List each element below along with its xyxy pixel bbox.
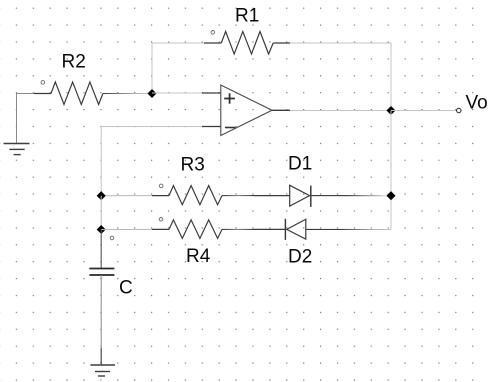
svg-text:R3: R3 [181, 154, 205, 175]
terminal Vo [457, 108, 461, 112]
diode D1 [254, 185, 311, 207]
svg-text:C: C [119, 278, 133, 299]
label R4 [186, 246, 211, 267]
wire: right bus node C down to D2 row [390, 196, 392, 230]
wire: node E down to capacitor C [100, 230, 102, 269]
ground GND2 [90, 365, 115, 376]
junction node A [147, 89, 156, 98]
wire: left bus node D to R3 lead [101, 195, 152, 197]
svg-text:D2: D2 [288, 247, 312, 268]
label R2 [62, 52, 86, 73]
wire: op-amp output to node B [290, 110, 391, 112]
op-amp U1 [202, 85, 290, 136]
junction node B (output) [386, 106, 395, 115]
label D1 [288, 154, 312, 175]
resistor R2 [34, 81, 152, 105]
wire: right bus node B to node C [390, 111, 392, 196]
wire: node A up to R1 left lead [152, 43, 204, 94]
resistor R4 [152, 218, 254, 239]
wire: capacitor to ground GND2 [100, 275, 102, 365]
junction node C [386, 191, 395, 200]
svg-text:R2: R2 [62, 52, 86, 73]
svg-text:D1: D1 [288, 154, 312, 175]
label R3 [181, 154, 205, 175]
ground GND1 [4, 144, 30, 155]
svg-text:Vo: Vo [466, 93, 488, 114]
svg-text:R1: R1 [235, 6, 259, 27]
label C [119, 278, 133, 299]
wire: left bus node D to node E [100, 196, 102, 230]
wire: node B to output terminal [391, 110, 457, 112]
diode D2 [254, 219, 391, 240]
wire: node E to R4 lead [101, 228, 152, 230]
capacitor C [89, 269, 114, 276]
label D2 [288, 247, 312, 268]
wire: op-amp - input to left bus [101, 127, 202, 196]
pin marker circle near capacitor [110, 236, 114, 240]
wire: node A to op-amp + input [152, 92, 202, 94]
label R1 [235, 6, 259, 27]
resistor R3 [152, 184, 254, 205]
wire: R2 left lead to ground [17, 94, 35, 144]
resistor R1 [204, 31, 290, 55]
svg-text:R4: R4 [186, 246, 211, 267]
wire: R1 right lead to right bus top [290, 43, 391, 111]
wire: D1 to node C [311, 195, 391, 197]
junction node E [97, 225, 106, 234]
label Vo [466, 93, 488, 114]
junction node D [97, 191, 106, 200]
